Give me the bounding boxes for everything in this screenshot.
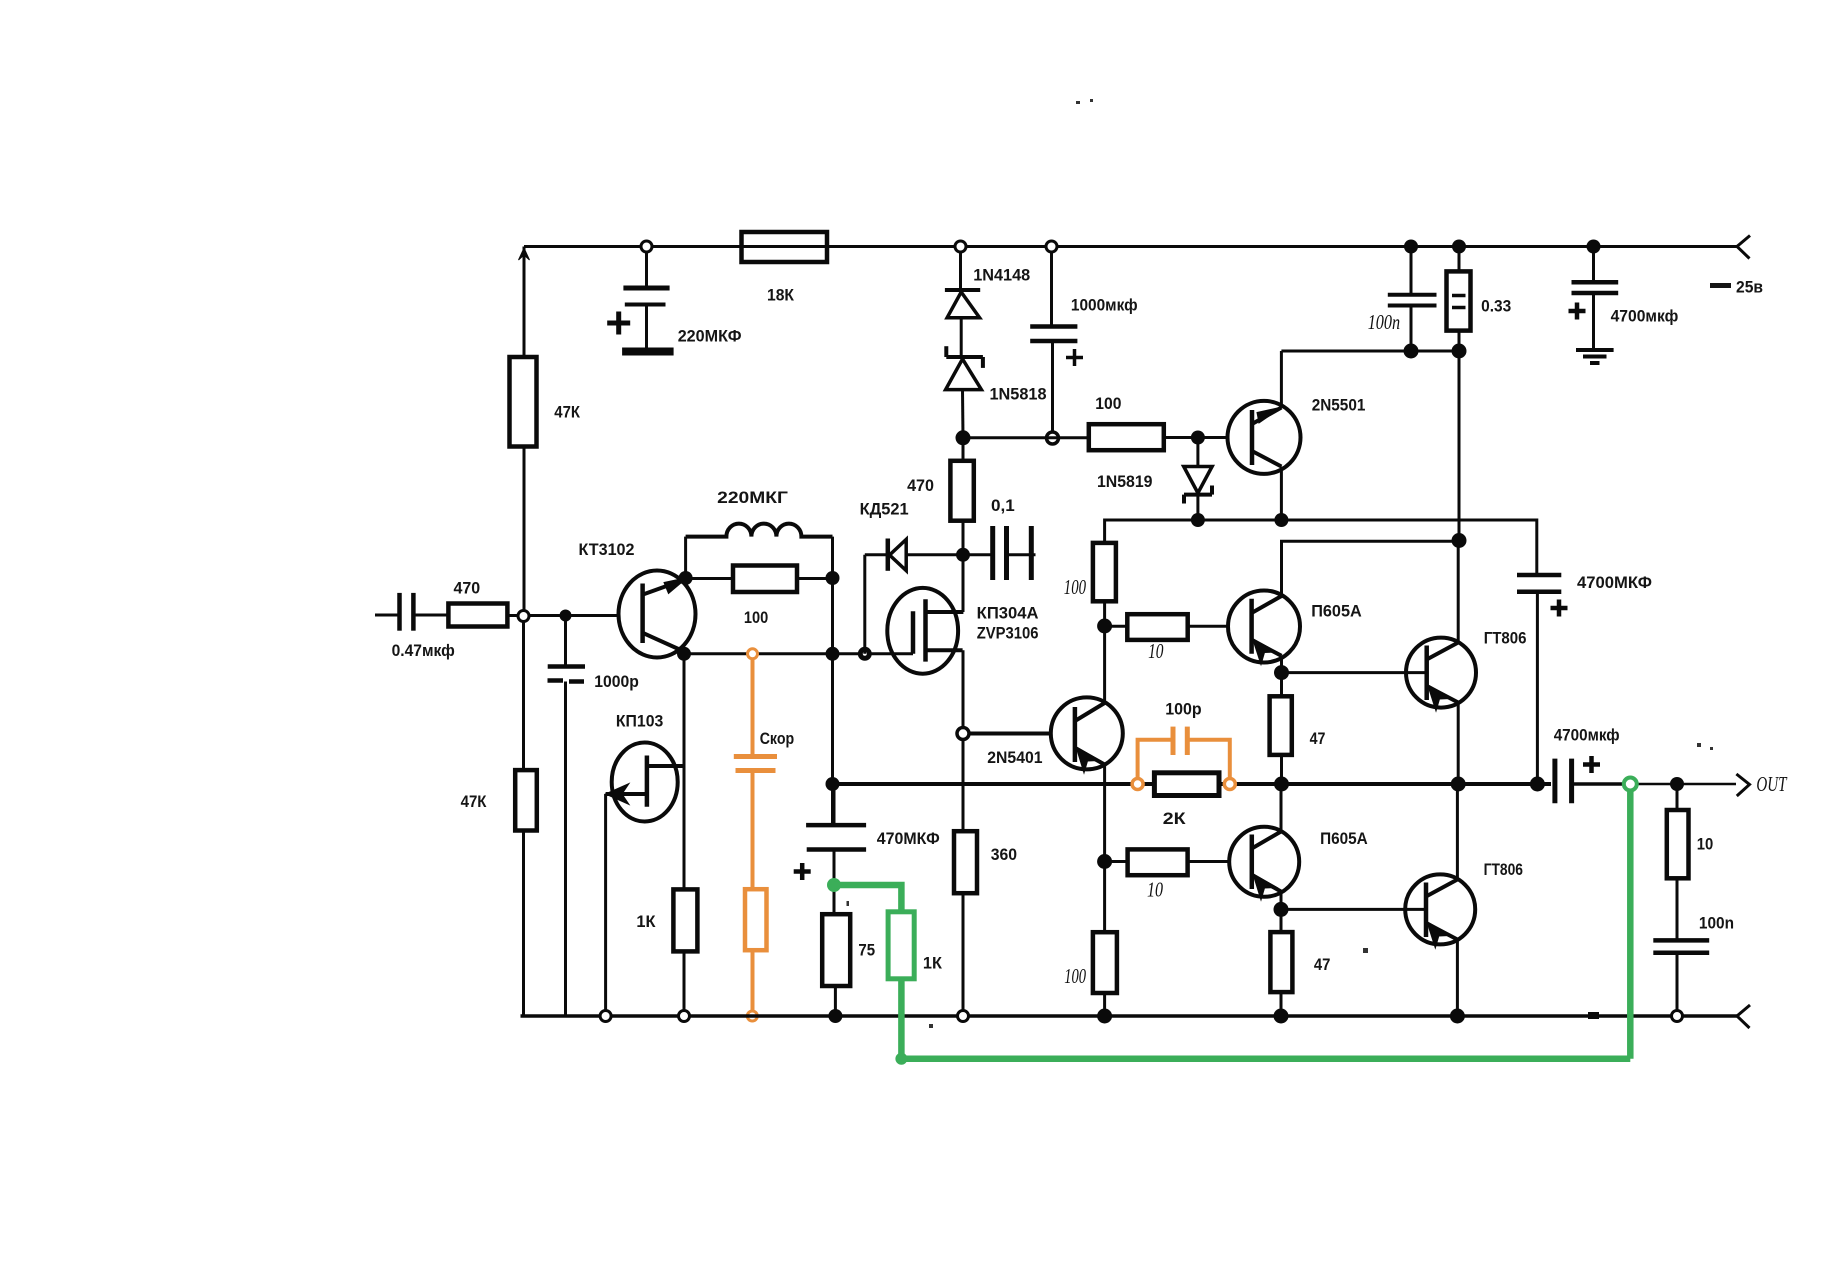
svg-text:ZVP3106: ZVP3106 [977, 625, 1039, 643]
svg-text:0.47мкф: 0.47мкф [392, 642, 455, 660]
resistor 47К upper [510, 357, 537, 447]
svg-text:КП304А: КП304А [977, 605, 1039, 623]
resistor 470 vertical [950, 438, 973, 555]
node dot out x1677 [1670, 777, 1684, 791]
capacitor 0.47мкф [400, 593, 449, 631]
capacitor 220МКФ [607, 252, 673, 352]
wire 2N5501 collector up [1280, 351, 1283, 408]
svg-text:ГТ806: ГТ806 [1484, 861, 1523, 879]
wire source down to 360 [962, 650, 965, 831]
svg-text:1N4148: 1N4148 [973, 267, 1030, 285]
diode 1N5819 [1184, 438, 1212, 521]
node dot above 470 [956, 430, 971, 445]
svg-text:КТ3102: КТ3102 [579, 541, 635, 559]
resistor 100 top [1089, 424, 1228, 450]
capacitor 100р (orange) [1138, 727, 1230, 778]
node dot rail above 0.33 [1452, 240, 1466, 254]
node dot collector [679, 571, 693, 585]
svg-text:470: 470 [907, 477, 934, 495]
svg-text:18К: 18К [767, 287, 795, 305]
capacitor 4700мкф top right [1569, 247, 1619, 350]
transistor КТ3102 [619, 571, 696, 658]
node dot x1104 y626 [1097, 619, 1112, 634]
svg-text:100: 100 [1064, 964, 1086, 988]
node dot mid line x832 [826, 777, 840, 791]
node dot П605А upper emitter [1274, 665, 1289, 680]
node dot emitter [677, 647, 691, 661]
svg-text:47: 47 [1310, 730, 1326, 748]
wire out line after green node [1637, 783, 1736, 786]
wire base line ГТ806 lower [1281, 908, 1426, 911]
svg-text:1N5818: 1N5818 [990, 386, 1047, 404]
wire bottom rail [521, 1014, 1738, 1018]
ground symbol [1576, 350, 1614, 363]
wire ГТ806 upper emitter down [1457, 703, 1460, 785]
wire 2N5401 emitter down [1103, 765, 1106, 862]
node Скор bottom open circle (orange) [747, 1011, 757, 1021]
wire left vertical from rail to 47K [523, 247, 526, 358]
rail tick mark [1588, 1012, 1599, 1019]
wire 47K to input node [523, 447, 526, 611]
wire node to base [529, 614, 620, 617]
node dot 1N5819 top [1191, 431, 1205, 445]
resistor 360 [954, 831, 977, 1010]
resistor 0.33 [1447, 247, 1471, 352]
resistor 2К [1154, 773, 1219, 796]
node dot rail ГТ806 lower [1450, 1009, 1465, 1024]
node dot base/1000p [560, 610, 572, 622]
node open circle rail above 1N4148 [955, 241, 966, 252]
node dot П605А lower emitter [1274, 902, 1289, 917]
capacitor 4700мкф output [1555, 756, 1624, 803]
resistor 10 upper [1105, 614, 1229, 640]
capacitor 4700МКФ mid [1517, 575, 1568, 784]
wire x1104 down to 2N5401 collector [1103, 626, 1106, 702]
node open circle rail above 220МКФ [641, 241, 652, 252]
resistor 1К [673, 889, 697, 951]
svg-text:ГТ806: ГТ806 [1484, 630, 1527, 648]
resistor 100 vertical upper mid [1093, 543, 1116, 626]
node green dot below 470МКФ [827, 878, 841, 892]
node dot y351 x1459 [1452, 344, 1467, 359]
node dot КД521/470/0,1 [956, 548, 970, 562]
capacitor 100n [1653, 940, 1709, 1010]
wire green bottom run [898, 1056, 1630, 1063]
svg-text:П605А: П605А [1311, 603, 1362, 621]
diode 1N5818 [946, 346, 983, 438]
wire top supply rail [524, 245, 1737, 248]
svg-text:OUT: OUT [1756, 772, 1787, 796]
node dot mid line x1458 [1451, 777, 1466, 792]
resistor 75 [822, 914, 850, 1016]
svg-text:100п: 100п [1368, 310, 1400, 334]
resistor 47К lower [515, 622, 537, 1017]
wire drain up to node [962, 555, 965, 612]
node orange 100р right open circle [1224, 779, 1235, 790]
resistor 47 upper [1270, 696, 1292, 784]
speck marks [847, 99, 1714, 1028]
diode 1N4148 [945, 252, 980, 357]
svg-text:470: 470 [454, 580, 481, 598]
node dot rail above 4700мкф [1587, 240, 1601, 254]
node dot y520 x1198 [1191, 513, 1205, 527]
svg-text:1000р: 1000р [594, 673, 639, 691]
svg-text:КД521: КД521 [860, 501, 909, 519]
node donut rail 360 [958, 1011, 969, 1022]
svg-text:1К: 1К [923, 955, 943, 973]
svg-text:4700МКФ: 4700МКФ [1577, 574, 1652, 592]
transistor ГТ806 lower [1405, 874, 1475, 948]
node dot emitter line at x832 [826, 647, 840, 661]
resistor Скор (orange) [745, 889, 767, 950]
wire green down through rail [898, 979, 905, 1056]
transistor КП103 [606, 743, 685, 1011]
node dot rail above 100п [1404, 240, 1418, 254]
wire feedback vertical [831, 537, 834, 825]
capacitor 100п [1388, 247, 1437, 352]
wire y351 line [1281, 350, 1459, 353]
node donut rail 1К [679, 1011, 690, 1022]
node donut rail КП103 [600, 1011, 611, 1022]
wire base line ГТ806 upper [1282, 671, 1427, 674]
resistor 10 output [1667, 784, 1689, 939]
node donut rail 100n [1672, 1011, 1683, 1022]
resistor 100 lower [1093, 862, 1117, 1017]
wire П605А upper emitter down [1280, 656, 1283, 697]
svg-text:220МКФ: 220МКФ [678, 328, 742, 346]
svg-text:75: 75 [858, 942, 875, 960]
wire green up to out [1627, 789, 1634, 1059]
wire green to 1К [834, 885, 901, 912]
wire y520 line [1105, 520, 1537, 574]
wire 1К to rail [683, 951, 686, 1010]
node dot gate/КД521 [858, 647, 872, 661]
capacitor Скор (orange) [734, 659, 777, 889]
svg-text:10: 10 [1148, 639, 1164, 663]
wire П605А lower emitter down [1280, 892, 1283, 910]
svg-text:100n: 100n [1699, 915, 1734, 933]
capacitor 470МКФ [794, 784, 866, 914]
svg-text:2N5501: 2N5501 [1312, 397, 1366, 415]
svg-text:470МКФ: 470МКФ [877, 830, 940, 848]
wire ГТ806 lower emitter down [1456, 940, 1459, 1017]
node green out circle [1624, 778, 1637, 791]
node donut 2N5401 base tap [957, 728, 969, 740]
resistor 10 lower [1105, 849, 1230, 875]
svg-text:4700мкф: 4700мкф [1611, 308, 1679, 326]
svg-text:47: 47 [1314, 956, 1331, 974]
wire 2N5401 base [969, 732, 1051, 736]
node orange 100р left open circle [1132, 779, 1143, 790]
svg-text:П605А: П605А [1320, 830, 1368, 848]
svg-text:100: 100 [744, 609, 768, 627]
svg-text:0.33: 0.33 [1481, 298, 1511, 316]
transistor 2N5501 [1228, 401, 1301, 474]
node dot rail 100 lower [1097, 1009, 1112, 1024]
capacitor 1000p [548, 616, 586, 1017]
wire ГТ806 lower collector up [1456, 784, 1459, 880]
transistor 2N5401 [1051, 697, 1123, 773]
wire mid output line y784 [833, 782, 1155, 786]
diode КД521 [865, 539, 963, 654]
resistor 470 input [448, 604, 507, 627]
OUT arrow [1736, 774, 1749, 796]
node dot rail 75 [828, 1009, 842, 1023]
wire emitter line to gate [684, 652, 913, 655]
svg-text:47К: 47К [461, 793, 488, 811]
capacitor 1000мкф [1030, 252, 1083, 432]
capacitor 0,1 [963, 526, 1036, 580]
svg-text:25в: 25в [1736, 279, 1763, 297]
svg-text:100: 100 [1064, 575, 1087, 599]
node green corner dot [895, 1053, 907, 1065]
wire Скор resistor to rail (orange) [751, 950, 755, 1010]
transistor П605А upper [1228, 591, 1300, 665]
wire resistor to node [507, 614, 517, 617]
resistor 100 feedback [686, 566, 833, 593]
inductor 220МКГ [686, 524, 833, 537]
resistor 47 lower [1270, 909, 1292, 1016]
node dot x1104 y861 [1097, 854, 1112, 869]
svg-text:10: 10 [1147, 878, 1163, 902]
wire КП103 drain vertical [683, 654, 686, 890]
svg-text:1N5819: 1N5819 [1097, 473, 1153, 491]
svg-text:100: 100 [1095, 395, 1121, 413]
node dot x1459 y541 [1452, 533, 1467, 548]
node input open circle [518, 611, 529, 622]
transistor ГТ806 upper [1406, 638, 1476, 711]
svg-text:Скор: Скор [760, 730, 795, 748]
wire ГТ806 upper collector up [1457, 541, 1460, 642]
wire y541 П605А collector line [1282, 541, 1460, 595]
svg-text:2N5401: 2N5401 [987, 749, 1042, 767]
transistor КП304А (MOSFET) [887, 588, 963, 674]
node dot rail 47 lower [1274, 1009, 1289, 1024]
svg-text:1К: 1К [636, 913, 656, 931]
svg-text:2К: 2К [1163, 810, 1187, 828]
node dot mid line x1281 [1274, 777, 1289, 792]
wire node row y438 [963, 436, 1089, 439]
svg-text:47К: 47К [554, 404, 581, 422]
resistor 1К (green) [888, 912, 914, 979]
resistor 18К [742, 232, 828, 262]
svg-text:100р: 100р [1165, 701, 1201, 719]
svg-text:10: 10 [1697, 836, 1714, 854]
wire x1459 down [1458, 351, 1461, 541]
wire collector up to feedback corner [684, 537, 687, 578]
node dot feedback right [826, 571, 840, 585]
svg-text:КП103: КП103 [616, 713, 663, 731]
node dot y351 x1411 [1404, 344, 1419, 359]
node Скор top open circle (orange) [748, 649, 758, 659]
node dot mid line x1537 [1530, 777, 1545, 792]
svg-text:1000мкф: 1000мкф [1071, 297, 1138, 315]
arrowhead up at rail left corner [519, 248, 530, 260]
bottom rail right end arrow [1737, 1005, 1750, 1028]
node dot y520 x1281 [1274, 513, 1288, 527]
wire input lead [375, 614, 398, 617]
node donut below 1000мкф [1047, 432, 1059, 444]
svg-text:220МКГ: 220МКГ [717, 489, 788, 507]
svg-text:360: 360 [991, 846, 1017, 864]
svg-text:4700мкф: 4700мкф [1554, 727, 1620, 745]
label -25в dash [1710, 283, 1731, 288]
node open circle rail above 1000мкф [1046, 241, 1057, 252]
wire П605А lower collector up [1280, 784, 1283, 832]
svg-text:0,1: 0,1 [991, 497, 1015, 515]
top rail right end arrow [1737, 236, 1750, 259]
wire 2N5501 emitter down [1280, 467, 1283, 521]
transistor П605А lower [1229, 827, 1299, 900]
